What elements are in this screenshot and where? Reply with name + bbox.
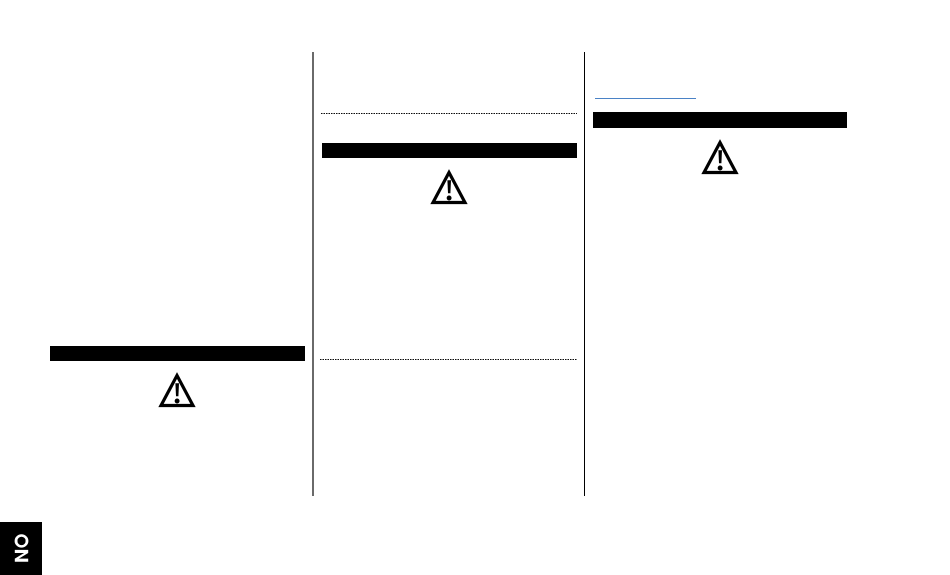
left column warning triangle [158,372,196,408]
bottom-left language tab "NO" (rotated) [0,522,42,575]
middle column black header bar [322,143,577,158]
right column warning triangle [701,139,739,175]
column divider rule 2 [584,52,586,497]
right column black header bar [593,112,847,128]
left column black header bar [50,346,305,362]
middle column dotted rule (top) [321,113,577,114]
middle column dotted rule (bottom) [320,359,577,360]
right column blue hyperlink underline [595,98,696,100]
middle column warning triangle [430,169,468,205]
column divider rule 1 [312,52,314,497]
